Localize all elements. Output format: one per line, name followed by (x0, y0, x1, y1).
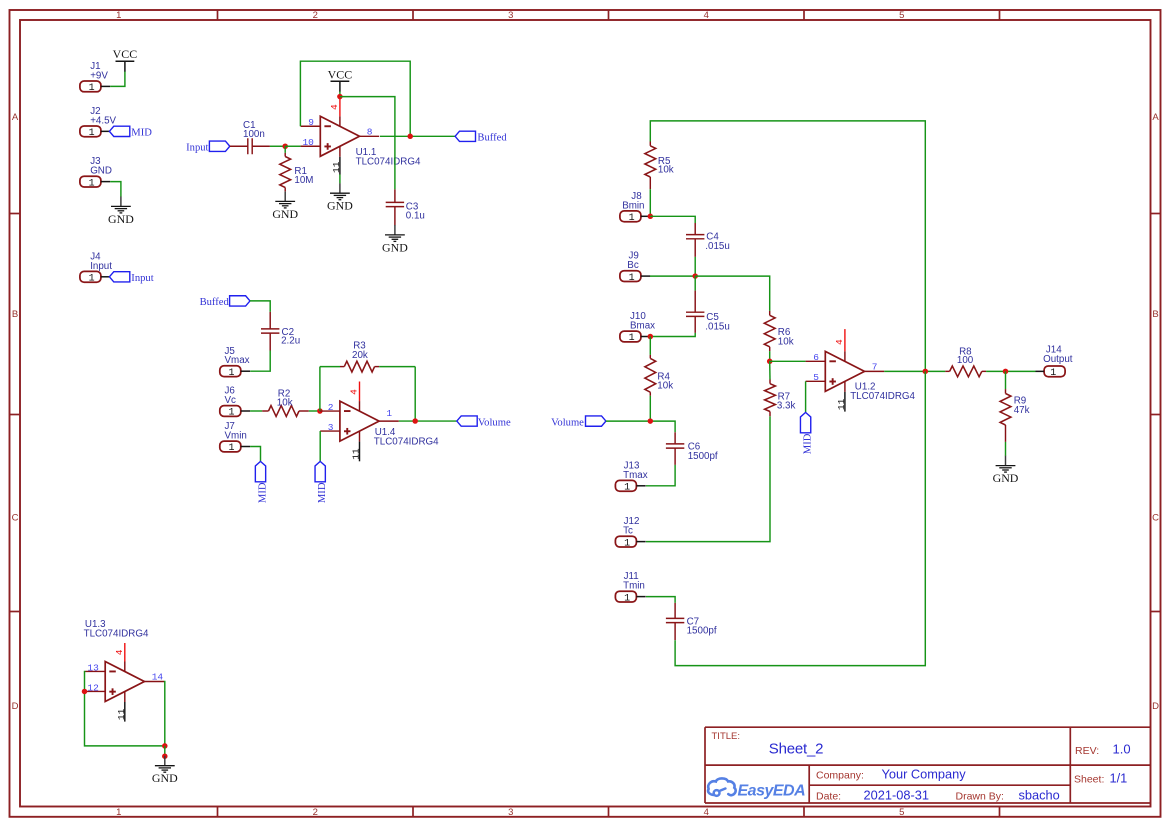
net flag Buffed at U1.1 output (455, 131, 475, 141)
U1.2 pin 6 inverting lead (806, 360, 826, 362)
resistor R1 lead bottom (284, 188, 286, 192)
svg-text:7: 7 (872, 362, 878, 373)
svg-text:10M: 10M (294, 175, 313, 186)
svg-text:+4.5V: +4.5V (90, 115, 116, 126)
svg-text:Buffed: Buffed (200, 297, 230, 308)
capacitor C5 lead bottom (694, 317, 696, 333)
resistor R9 lead bottom (1005, 425, 1007, 442)
svg-text:0.1u: 0.1u (406, 211, 425, 222)
ground symbol below C3 (394, 225, 396, 235)
svg-text:MID: MID (317, 482, 328, 503)
svg-text:Volume: Volume (478, 417, 511, 428)
capacitor C2 lead top (269, 312, 271, 329)
resistor R8 (950, 366, 982, 377)
svg-text:Bc: Bc (627, 260, 639, 271)
svg-text:1: 1 (624, 593, 630, 604)
resistor R4 lead top (649, 355, 651, 359)
svg-text:11: 11 (116, 708, 127, 720)
svg-text:1: 1 (1050, 368, 1056, 379)
EasyEDA logo cloud (708, 778, 736, 795)
svg-text:12: 12 (87, 682, 99, 693)
resistor R9 lead top (1005, 389, 1007, 393)
wire node B to R3 (320, 366, 340, 368)
svg-text:Vc: Vc (225, 395, 237, 406)
svg-text:GND: GND (993, 471, 1019, 485)
node output junction U1.1 (407, 134, 413, 140)
svg-text:100: 100 (957, 355, 974, 366)
svg-text:TLC074IDRG4: TLC074IDRG4 (356, 157, 421, 168)
wire J9 node to R6 drop (695, 276, 770, 311)
node A junction (282, 144, 288, 150)
resistor R9 (1000, 394, 1011, 426)
svg-text:TLC074IDRG4: TLC074IDRG4 (84, 629, 149, 640)
svg-text:1: 1 (228, 368, 234, 379)
node U1.3 ground junction (162, 753, 168, 759)
connector J11 pad (615, 591, 636, 602)
op-amp U1.1 body (320, 116, 359, 156)
wire R5 to J8 node (649, 189, 651, 216)
wire Buffed to C2 (250, 301, 270, 312)
svg-text:Tmin: Tmin (623, 581, 645, 592)
svg-text:Buffed: Buffed (477, 132, 507, 143)
wire U1.3 to ground (164, 746, 166, 757)
svg-text:D: D (12, 701, 19, 712)
resistor R7 (765, 384, 776, 412)
wire J10 node to R4 (649, 337, 651, 355)
svg-text:11: 11 (836, 398, 847, 410)
capacitor C4 lead bottom (694, 239, 696, 257)
svg-text:4: 4 (704, 807, 709, 818)
ground symbol at U1.1 pin 11 (339, 183, 341, 193)
svg-text:4: 4 (349, 389, 360, 395)
connector J10 pad (620, 331, 641, 342)
svg-text:1: 1 (89, 178, 95, 189)
connector J2 pad (80, 126, 101, 137)
svg-text:11: 11 (331, 161, 342, 173)
svg-text:5: 5 (899, 807, 904, 818)
svg-text:1: 1 (89, 274, 95, 285)
resistor R6 lead top (769, 311, 771, 315)
node VCC junction at U1.1 (337, 94, 343, 100)
wire J7 to MID (250, 447, 260, 462)
svg-text:1/1: 1/1 (1110, 770, 1128, 785)
wire Volume to C6 (606, 421, 675, 432)
node output junction U1.4 (412, 418, 418, 424)
svg-text:Input: Input (131, 273, 153, 284)
svg-text:Input: Input (186, 142, 208, 153)
svg-text:Date:: Date: (816, 790, 841, 802)
wire R3 feedback right (414, 367, 416, 421)
svg-text:1: 1 (89, 83, 95, 94)
svg-text:sbacho: sbacho (1019, 787, 1060, 802)
svg-text:REV:: REV: (1075, 745, 1099, 757)
svg-text:A: A (1152, 112, 1159, 123)
node J10 junction (648, 334, 654, 340)
svg-text:MID: MID (258, 482, 269, 503)
wire C6 to J13 (646, 465, 675, 486)
net flag MID at J2 (109, 126, 129, 136)
connector J7 pad (220, 441, 241, 452)
U1.2 pin 11 lead (844, 381, 846, 392)
svg-text:10k: 10k (778, 337, 794, 348)
svg-text:MID: MID (803, 433, 814, 454)
connector J9 pad (620, 271, 641, 282)
svg-text:8: 8 (367, 127, 373, 138)
wire J12 to R7 (646, 416, 770, 541)
U1.1 pin 4 power lead (339, 97, 341, 117)
connector J6 pad (220, 406, 241, 417)
svg-text:1: 1 (228, 408, 234, 419)
svg-text:2: 2 (313, 807, 318, 818)
connector J8 pad (620, 211, 641, 222)
svg-text:4: 4 (704, 10, 709, 21)
svg-text:.015u: .015u (705, 321, 730, 332)
capacitor C4 (686, 234, 704, 236)
wire Input flag to C1 (230, 145, 248, 147)
svg-text:D: D (1152, 701, 1159, 712)
net flag Volume at U1.4 output (457, 416, 477, 426)
svg-text:GND: GND (152, 771, 178, 785)
resistor R2 lead right (299, 410, 309, 412)
svg-text:1: 1 (228, 443, 234, 454)
ground symbol at J3 (120, 197, 122, 207)
svg-text:TLC074IDRG4: TLC074IDRG4 (850, 391, 915, 402)
svg-text:2.2u: 2.2u (281, 336, 300, 347)
svg-text:10k: 10k (658, 165, 674, 176)
power flag VCC at J1 (116, 60, 135, 62)
resistor R3 lead right (375, 366, 380, 368)
svg-text:1: 1 (624, 538, 630, 549)
connector J1 pad (80, 81, 101, 92)
svg-text:GND: GND (90, 166, 112, 177)
net flag Buffed source (230, 296, 250, 306)
U1.1 pin 9 inverting lead (301, 125, 321, 127)
svg-text:10k: 10k (277, 397, 293, 408)
svg-text:1: 1 (629, 273, 635, 284)
connector J14 pad (1044, 366, 1065, 377)
capacitor C6 lead top (674, 432, 676, 444)
node U1.3 output junction (162, 743, 168, 749)
capacitor C2 (261, 328, 279, 330)
wire J3 to ground (110, 182, 121, 197)
resistor R2 lead left (262, 410, 268, 412)
svg-text:GND: GND (272, 207, 298, 221)
node J9 junction (692, 273, 698, 279)
capacitor C1 (247, 138, 249, 154)
svg-text:10: 10 (302, 137, 314, 148)
wire node A down to R1 (284, 146, 286, 153)
wire U1.1 pin9 feedback loop (300, 61, 410, 136)
svg-text:13: 13 (87, 662, 99, 673)
svg-text:2021-08-31: 2021-08-31 (864, 787, 929, 802)
svg-text:20k: 20k (352, 350, 368, 361)
svg-text:3: 3 (328, 422, 334, 433)
svg-text:14: 14 (152, 672, 164, 683)
resistor R1 lead top (284, 153, 286, 157)
node J8 junction (648, 214, 654, 220)
capacitor C1 right lead (252, 145, 270, 147)
svg-text:Vmax: Vmax (225, 355, 250, 366)
wire top feedback bus (650, 121, 925, 371)
svg-text:1: 1 (116, 10, 121, 21)
svg-text:Vmin: Vmin (225, 431, 247, 442)
svg-text:1500pf: 1500pf (688, 451, 718, 462)
capacitor C3 (386, 201, 404, 203)
svg-text:4: 4 (329, 104, 340, 110)
connector J12 pad (615, 536, 636, 547)
U1.3 pin 4 power lead (124, 643, 126, 662)
resistor R1 (280, 157, 291, 188)
node Volume junction (648, 418, 654, 424)
resistor R8 lead right (982, 370, 986, 372)
wire U1.2 pin5 to MID (805, 381, 807, 412)
wire R2 to node B (309, 410, 320, 412)
svg-text:Volume: Volume (551, 417, 584, 428)
svg-text:1: 1 (624, 483, 630, 494)
wire R8 to J14 (986, 370, 1035, 372)
U1.1 pin 10 non-inverting lead (301, 145, 321, 147)
wire pin6 node to U1.2 (770, 360, 806, 362)
connector J4 pad (80, 271, 101, 282)
op-amp U1.3 body (105, 662, 144, 702)
svg-text:Tc: Tc (623, 526, 633, 537)
capacitor C7 lead bottom (674, 623, 676, 640)
wire J1 to VCC (110, 71, 125, 86)
svg-text:9: 9 (308, 117, 314, 128)
wire R9 top (1005, 371, 1007, 389)
capacitor C5 (686, 311, 704, 313)
svg-text:B: B (1152, 309, 1158, 320)
resistor R6 (764, 315, 775, 347)
wire R9 to ground (1005, 442, 1007, 456)
wire U1.2 output to R8 (884, 370, 945, 372)
svg-text:2: 2 (313, 10, 318, 21)
wire C4 to J9 node (694, 257, 696, 276)
U1.2 pin 4 power lead (844, 329, 846, 351)
svg-text:100n: 100n (243, 129, 265, 140)
resistor R3 lead left (340, 366, 344, 368)
wire U1.4 pin 3 to MID (319, 431, 321, 461)
ground symbol at U1.3 (164, 756, 166, 766)
svg-text:2: 2 (328, 402, 334, 413)
net flag Input source (209, 141, 229, 151)
capacitor C2 lead bottom (269, 334, 271, 351)
resistor R4 (645, 358, 656, 392)
connector J13 pad (615, 480, 636, 491)
capacitor C7 (666, 617, 684, 619)
svg-text:1: 1 (629, 333, 635, 344)
connector J3 pad (80, 176, 101, 187)
wire U1.1 output to Buffed (380, 135, 455, 137)
resistor R4 lead bottom (649, 392, 651, 396)
op-amp U1.4 body (340, 401, 379, 441)
svg-text:TLC074IDRG4: TLC074IDRG4 (374, 436, 439, 447)
svg-text:5: 5 (813, 372, 819, 383)
node U1.3 pin12 junction (82, 689, 88, 695)
U1.4 pin 1 output lead (379, 420, 399, 422)
svg-text:4: 4 (834, 339, 845, 345)
resistor R8 lead left (945, 370, 949, 372)
node R9 top junction (1003, 369, 1009, 375)
svg-text:C: C (12, 512, 19, 523)
svg-text:A: A (12, 112, 19, 123)
U1.4 pin 4 power lead (359, 382, 361, 402)
wire VCC to junction (339, 92, 341, 97)
svg-text:Your Company: Your Company (882, 767, 967, 782)
wire J11 to C7 (646, 597, 675, 603)
svg-text:1.0: 1.0 (1113, 742, 1131, 757)
op-amp U1.2 body (825, 351, 864, 391)
resistor R5 (645, 146, 656, 177)
svg-text:GND: GND (108, 212, 134, 226)
wire J8 node to C4 (650, 216, 695, 223)
svg-text:5: 5 (899, 10, 904, 21)
resistor R7 lead top (769, 380, 771, 384)
resistor R7 lead bottom (769, 412, 771, 417)
wire C2 to J5 (250, 351, 270, 372)
svg-text:MID: MID (131, 127, 152, 138)
net flag MID at U1.2 pin5 (800, 412, 810, 432)
node U1.2 pin6 junction (767, 359, 773, 365)
svg-text:3: 3 (508, 10, 513, 21)
resistor R3 (344, 361, 374, 372)
U1.2 pin 5 non-inverting lead (806, 380, 826, 382)
U1.1 pin 11 lead (339, 146, 341, 157)
svg-text:Sheet_2: Sheet_2 (769, 741, 823, 758)
capacitor C5 lead top (694, 291, 696, 313)
U1.4 pin 3 non-inverting lead (320, 430, 340, 432)
svg-text:Bmax: Bmax (630, 321, 655, 332)
wire C5 to J10 node (650, 333, 695, 337)
svg-text:3.3k: 3.3k (777, 401, 796, 412)
power flag VCC at U1.1 (331, 80, 350, 82)
resistor R6 lead bottom (769, 347, 771, 351)
wire U1.1 pin 11 to ground stub (339, 175, 341, 184)
wire R4 to Volume node (649, 396, 651, 421)
svg-text:Company:: Company: (816, 769, 864, 781)
svg-text:B: B (12, 309, 18, 320)
wire J9 node to C5 (694, 276, 696, 291)
net flag Input at J4 (109, 272, 129, 282)
svg-text:6: 6 (813, 352, 819, 363)
capacitor C6 (666, 443, 684, 445)
resistor R2 (269, 406, 300, 417)
svg-text:Sheet:: Sheet: (1074, 774, 1104, 786)
U1.3 pin 14 output lead (144, 681, 164, 683)
U1.2 pin 7 output lead (865, 370, 885, 372)
title block grid lines (705, 726, 1151, 728)
U1.1 pin 8 output lead (360, 135, 380, 137)
svg-text:C: C (1152, 512, 1159, 523)
svg-text:Drawn By:: Drawn By: (956, 790, 1004, 802)
svg-text:1: 1 (629, 213, 635, 224)
svg-text:10k: 10k (657, 380, 673, 391)
svg-text:VCC: VCC (328, 67, 353, 81)
U1.3 pin 11 lead (124, 692, 126, 703)
wire node A to U1.1 pin 10 (285, 145, 300, 147)
U1.4 pin 11 lead (359, 431, 361, 442)
capacitor C3 lead bottom (394, 207, 396, 225)
capacitor C4 lead top (694, 223, 696, 235)
wire U1.3 feedback loop (85, 671, 165, 745)
wire C1 to node A (270, 145, 285, 147)
wire C7 to bottom feedback bus (675, 371, 925, 665)
svg-text:3: 3 (508, 807, 513, 818)
net flag Volume source (586, 416, 606, 426)
frame zone tick marks (217, 10, 219, 20)
svg-text:VCC: VCC (113, 47, 138, 61)
svg-text:1: 1 (116, 807, 121, 818)
net flag MID at U1.4 pin3 (315, 461, 325, 481)
svg-text:1500pf: 1500pf (687, 626, 717, 637)
svg-text:GND: GND (327, 199, 353, 213)
capacitor C3 lead top (394, 189, 396, 202)
svg-text:4: 4 (114, 649, 125, 655)
capacitor C7 lead top (674, 603, 676, 619)
svg-text:.015u: .015u (705, 241, 730, 252)
wire R3 feedback left (319, 367, 321, 411)
svg-text:Input: Input (90, 261, 112, 272)
wire pin6 node to R7 (769, 361, 771, 379)
svg-text:1: 1 (386, 408, 392, 419)
ground symbol below R1 (284, 192, 286, 202)
resistor R5 lead top (649, 142, 651, 146)
wire U1.4 output to Volume (399, 420, 457, 422)
resistor R5 lead bottom (649, 177, 651, 189)
wire R6 to pin6 node (769, 351, 771, 361)
wire R3 to output node (379, 366, 415, 368)
wire J9 to node (650, 275, 695, 277)
svg-text:Tmax: Tmax (623, 470, 648, 481)
U1.3 pin 13 inverting lead (86, 670, 106, 672)
U1.4 pin 2 inverting lead (320, 410, 340, 412)
net flag MID at J7 (255, 461, 265, 481)
capacitor C6 lead bottom (674, 449, 676, 465)
node U1.2 output junction (923, 369, 929, 375)
svg-text:+9V: +9V (90, 70, 108, 81)
svg-text:GND: GND (382, 240, 408, 254)
svg-text:Bmin: Bmin (622, 200, 644, 211)
wire VCC junction to C3 drop (340, 97, 395, 190)
svg-text:Output: Output (1043, 354, 1073, 365)
svg-text:TITLE:: TITLE: (712, 731, 741, 742)
wire J6 to R2 (250, 410, 262, 412)
node B junction (317, 408, 323, 414)
svg-text:11: 11 (351, 448, 362, 460)
svg-text:47k: 47k (1014, 405, 1030, 416)
U1.3 pin 12 non-inverting lead (86, 690, 106, 692)
connector J5 pad (220, 366, 241, 377)
ground symbol below R9 (1005, 456, 1007, 466)
svg-text:EasyEDA: EasyEDA (738, 782, 806, 799)
svg-text:1: 1 (89, 128, 95, 139)
